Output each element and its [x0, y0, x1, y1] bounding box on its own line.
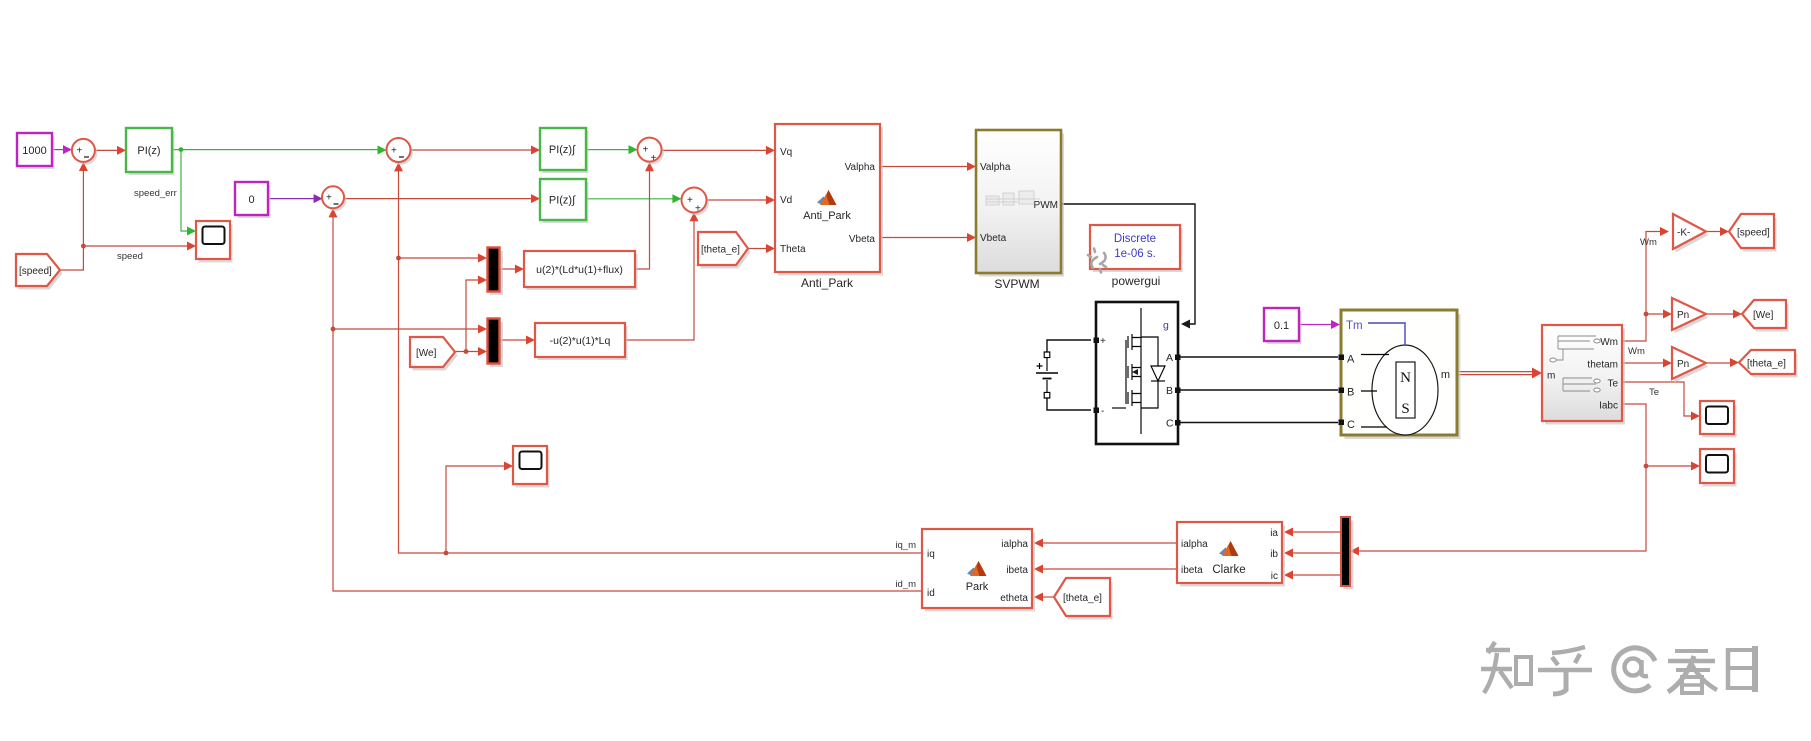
svg-text:C: C	[1347, 419, 1355, 431]
svg-text:iq: iq	[927, 549, 935, 560]
svg-text:speed_err: speed_err	[134, 188, 177, 199]
svg-text:Vq: Vq	[780, 147, 792, 158]
svg-text:Wm: Wm	[1640, 237, 1657, 248]
svg-text:ialpha: ialpha	[1001, 539, 1028, 550]
svg-text:[We]: [We]	[416, 348, 437, 359]
svg-text:A: A	[1166, 352, 1173, 364]
svg-text:[theta_e]: [theta_e]	[1063, 593, 1102, 604]
svg-text:1e-06 s.: 1e-06 s.	[1114, 248, 1156, 260]
svg-text:id_m: id_m	[895, 579, 916, 590]
svg-text:Clarke: Clarke	[1212, 564, 1245, 576]
svg-text:Discrete: Discrete	[1114, 233, 1156, 245]
svg-text:Valpha: Valpha	[845, 162, 876, 173]
svg-text:+: +	[1100, 336, 1106, 347]
svg-text:[theta_e]: [theta_e]	[701, 245, 740, 256]
svg-text:g: g	[1163, 320, 1169, 332]
svg-text:etheta: etheta	[1000, 593, 1028, 604]
svg-text:thetam: thetam	[1587, 360, 1618, 371]
svg-text:PWM: PWM	[1034, 200, 1058, 211]
svg-text:Pn: Pn	[1677, 359, 1689, 370]
svg-text:A: A	[1347, 354, 1355, 366]
svg-text:iq_m: iq_m	[895, 540, 916, 551]
svg-text:0: 0	[248, 194, 254, 206]
svg-text:[We]: [We]	[1753, 310, 1774, 321]
svg-text:+: +	[687, 195, 693, 206]
svg-text:+: +	[643, 145, 649, 156]
svg-text:+: +	[77, 146, 83, 157]
svg-text:-K-: -K-	[1677, 228, 1690, 239]
svg-text:Anti_Park: Anti_Park	[801, 276, 854, 290]
svg-text:+: +	[326, 193, 332, 204]
svg-text:Vd: Vd	[780, 195, 792, 206]
svg-text:Pn: Pn	[1677, 310, 1689, 321]
svg-text:[speed]: [speed]	[1737, 228, 1770, 239]
svg-text:ibeta: ibeta	[1181, 565, 1203, 576]
svg-text:Park: Park	[966, 581, 989, 593]
svg-text:Te: Te	[1607, 379, 1618, 390]
svg-text:S: S	[1401, 401, 1409, 417]
svg-text:Anti_Park: Anti_Park	[803, 210, 851, 222]
svg-text:Iabc: Iabc	[1599, 401, 1618, 412]
svg-text:id: id	[927, 588, 935, 599]
svg-text:+: +	[695, 204, 701, 215]
svg-text:m: m	[1441, 369, 1450, 381]
svg-text:speed: speed	[117, 251, 143, 262]
svg-text:powergui: powergui	[1112, 274, 1161, 288]
svg-text:-u(2)*u(1)*Lq: -u(2)*u(1)*Lq	[550, 335, 611, 347]
svg-text:[speed]: [speed]	[19, 266, 52, 277]
svg-text:ia: ia	[1270, 528, 1278, 539]
svg-text:+: +	[651, 153, 657, 164]
svg-text:u(2)*(Ld*u(1)+flux): u(2)*(Ld*u(1)+flux)	[536, 264, 623, 276]
svg-text:+: +	[391, 146, 397, 157]
svg-text:Te: Te	[1649, 387, 1659, 398]
svg-text:PI(z)∫: PI(z)∫	[549, 195, 576, 207]
svg-text:[theta_e]: [theta_e]	[1747, 359, 1786, 370]
svg-text:1000: 1000	[22, 145, 46, 157]
svg-text:B: B	[1166, 385, 1173, 397]
svg-text:N: N	[1400, 370, 1411, 386]
svg-text:ic: ic	[1271, 571, 1278, 582]
svg-text:B: B	[1347, 387, 1354, 399]
svg-text:ialpha: ialpha	[1181, 539, 1208, 550]
svg-text:0.1: 0.1	[1274, 320, 1289, 332]
svg-text:Vbeta: Vbeta	[849, 234, 876, 245]
svg-text:-: -	[1101, 406, 1104, 417]
svg-text:Theta: Theta	[780, 244, 806, 255]
svg-text:m: m	[1547, 371, 1555, 382]
svg-text:Vbeta: Vbeta	[980, 233, 1007, 244]
svg-text:Tm: Tm	[1346, 320, 1363, 332]
svg-text:Wm: Wm	[1628, 346, 1645, 357]
svg-text:Wm: Wm	[1600, 337, 1618, 348]
svg-text:ib: ib	[1270, 549, 1278, 560]
svg-text:Valpha: Valpha	[980, 162, 1011, 173]
svg-text:ibeta: ibeta	[1006, 565, 1028, 576]
svg-text:PI(z): PI(z)	[137, 145, 160, 157]
svg-text:C: C	[1166, 418, 1174, 430]
svg-text:PI(z)∫: PI(z)∫	[549, 144, 576, 156]
svg-text:SVPWM: SVPWM	[994, 277, 1039, 291]
